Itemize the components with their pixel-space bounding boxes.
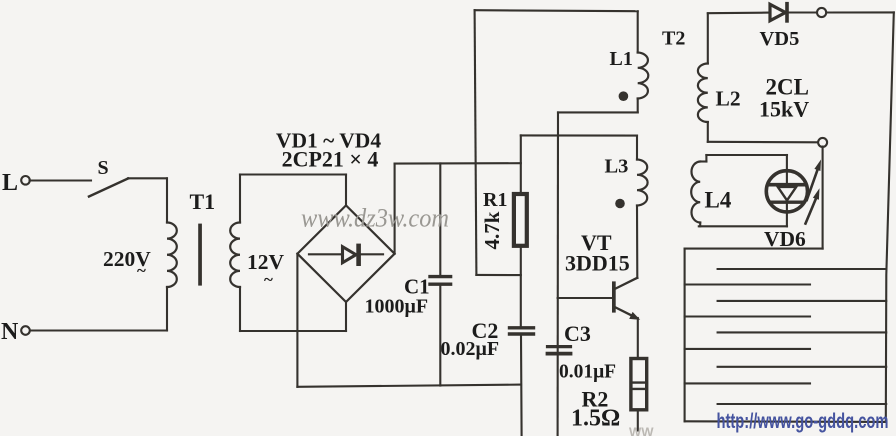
- svg-text:2CP21 × 4: 2CP21 × 4: [282, 147, 379, 172]
- label 2CP21 x 4: [282, 147, 379, 172]
- svg-text:1000μF: 1000μF: [365, 296, 429, 318]
- switch S: [89, 157, 128, 197]
- svg-text:1.5Ω: 1.5Ω: [571, 406, 620, 432]
- diode VD6 (HV indicator): [766, 155, 807, 226]
- top rail: [475, 10, 638, 11]
- wire VD5 node to right edge: [826, 11, 893, 13]
- label T2: [662, 28, 685, 50]
- resistor R2 1.5ohm: [631, 359, 647, 410]
- ionizer grid electrode: [685, 249, 887, 422]
- wire node down to grid top: [822, 147, 824, 249]
- svg-text:T2: T2: [662, 28, 685, 50]
- terminal node after VD5: [817, 8, 826, 17]
- resistor R1 4.7k: [514, 194, 527, 246]
- polarity dot L1: [619, 91, 629, 101]
- label 4.7k: [480, 211, 504, 249]
- terminal N (mains neutral): [1, 319, 30, 345]
- label L4: [705, 188, 732, 213]
- svg-text:0.01μF: 0.01μF: [559, 362, 616, 383]
- bottom rail: [297, 385, 521, 387]
- svg-text:L1: L1: [610, 48, 633, 70]
- label 3DD15: [565, 251, 630, 276]
- transformer T1 primary winding 220V: [167, 223, 177, 288]
- label L3: [605, 156, 629, 178]
- wire L to switch: [30, 179, 91, 181]
- svg-text:~: ~: [264, 270, 273, 289]
- terminal node L2 bottom: [818, 138, 827, 147]
- svg-text:WW: WW: [629, 425, 654, 436]
- watermark dz3w: [301, 204, 449, 233]
- wire switch to T1 primary top: [128, 178, 167, 222]
- transformer T1 core: [198, 224, 202, 286]
- wire R2 bottom: [637, 410, 639, 431]
- label VD6: [764, 227, 806, 251]
- svg-text:3DD15: 3DD15: [565, 251, 630, 276]
- wire R1 top node: [521, 135, 637, 192]
- label 0.02uF: [441, 338, 500, 360]
- label 2CL: [766, 75, 809, 100]
- terminal L (mains live): [2, 170, 30, 196]
- label C1: [404, 275, 430, 299]
- svg-text:R1: R1: [483, 189, 507, 211]
- wire L1 bottom to L3 top riser: [558, 112, 638, 436]
- bridge diode symbol: [309, 244, 383, 266]
- VD6 emission arrow 1: [807, 160, 821, 201]
- watermark go-gddq: [717, 410, 889, 433]
- capacitor C2 0.02uF: [510, 328, 534, 436]
- wire L2 top to VD5: [708, 12, 769, 15]
- inductor L2 (T2 HV secondary): [698, 13, 708, 141]
- wire base: [558, 297, 612, 299]
- label 1000uF: [365, 296, 429, 318]
- label R1: [483, 189, 507, 211]
- bridge rectifier VD1-VD4 diamond: [297, 205, 394, 302]
- label R2: [582, 387, 609, 412]
- wire primary bottom to N: [30, 287, 167, 331]
- inductor L4 loop: [691, 155, 787, 226]
- label C2: [472, 318, 499, 343]
- wire DC+ rail to R1 top node: [395, 162, 521, 165]
- svg-text:L4: L4: [705, 188, 732, 213]
- capacitor C3 0.01uF: [548, 347, 571, 354]
- label VD1~VD4: [276, 129, 381, 153]
- capacitor C1 1000uF: [430, 163, 451, 385]
- label 0.01uF: [559, 362, 616, 383]
- transformer T1 secondary winding 12V: [230, 223, 240, 288]
- inductor L3 (feedback winding): [637, 136, 648, 278]
- svg-text:http://www.go-gddq.com: http://www.go-gddq.com: [717, 410, 889, 433]
- svg-text:4.7k: 4.7k: [480, 211, 504, 249]
- diode VD5: [770, 2, 817, 23]
- svg-text:L2: L2: [716, 87, 741, 111]
- polarity dot L3: [615, 199, 625, 209]
- VD6 emission arrow 2: [806, 188, 820, 223]
- svg-text:~: ~: [137, 261, 146, 280]
- wire bridge DC+ up: [394, 164, 396, 254]
- label 15kV: [759, 97, 809, 122]
- label L2: [716, 87, 741, 111]
- label VD5: [760, 28, 800, 50]
- svg-text:S: S: [98, 157, 109, 179]
- svg-text:L3: L3: [605, 156, 629, 178]
- svg-text:C3: C3: [564, 321, 591, 346]
- label VT: [581, 230, 612, 255]
- svg-text:VD6: VD6: [764, 227, 806, 251]
- right edge wire down to grid: [886, 12, 894, 422]
- svg-text:0.02μF: 0.02μF: [441, 338, 500, 360]
- label T1: [190, 189, 216, 214]
- wire emitter to R2: [637, 318, 639, 357]
- svg-text:www.dz3w.com: www.dz3w.com: [301, 204, 449, 233]
- wire secondary bottom to bridge AC2: [240, 287, 346, 331]
- svg-text:N: N: [1, 319, 19, 345]
- svg-text:T1: T1: [190, 189, 216, 214]
- wire bridge DC- down: [296, 254, 298, 387]
- label 12V: [247, 250, 285, 289]
- wire secondary top to bridge AC1: [240, 175, 346, 223]
- scan artifact: [629, 425, 654, 436]
- label 220V: [103, 247, 151, 280]
- svg-text:L: L: [2, 170, 18, 196]
- label C3: [564, 321, 591, 346]
- svg-text:VD5: VD5: [760, 28, 800, 50]
- wire R1 bottom to C2: [520, 246, 522, 326]
- inductor L1 (T2 primary): [638, 11, 649, 112]
- transistor VT 3DD15: [612, 278, 640, 320]
- wire R1 bottom to top rail (left riser): [475, 10, 521, 275]
- label L1: [610, 48, 633, 70]
- svg-text:15kV: 15kV: [759, 97, 809, 122]
- wire L2 bottom: [708, 141, 819, 144]
- label 1.5ohm: [571, 406, 620, 432]
